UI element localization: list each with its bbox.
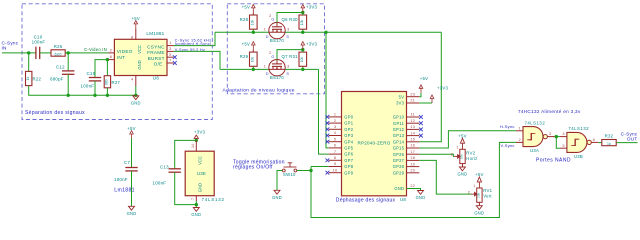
transistor Q7 BS170 [269,59,285,75]
svg-text:GP1: GP1 [344,121,353,126]
wire R32 to C-Sync OUT [616,142,637,144]
power +5V at R28 [252,5,256,13]
wire to U3B pin5 [556,137,560,149]
svg-text:VCC: VCC [137,45,142,54]
svg-text:74LS132: 74LS132 [525,120,546,125]
svg-text:GND: GND [416,195,426,200]
wire C7 to gnd [131,171,133,206]
svg-text:7: 7 [191,198,195,200]
ground at U3E [193,208,199,212]
svg-text:10k: 10k [300,57,304,63]
svg-text:GP27: GP27 [393,158,405,163]
svg-text:5V: 5V [399,94,405,99]
pin 7 [195,196,197,201]
pin 3 FRAME [167,50,174,52]
wire pin7 [195,201,197,205]
wire R30 bottom [302,29,304,32]
svg-text:1: 1 [264,26,266,31]
svg-text:INT: INT [117,55,125,60]
wire U3A out to U3B pin4 [555,136,560,138]
svg-text:2: 2 [468,190,470,194]
wire loop to U3A pin2 [311,142,516,217]
svg-text:GND: GND [394,186,404,191]
wire +5V to C7 [131,139,133,168]
svg-text:20: 20 [410,169,415,173]
power +3V3 at U3E [194,135,198,140]
svg-text:GP2: GP2 [344,127,353,132]
svg-text:3V3: 3V3 [396,101,405,106]
svg-text:GP6: GP6 [344,152,353,157]
svg-text:7: 7 [334,150,336,154]
power +5V at RV1 [477,177,481,188]
capacitor C10 [36,47,40,59]
svg-text:8: 8 [334,156,336,160]
wire C10 to R26 [40,52,51,54]
svg-text:7: 7 [169,58,171,63]
svg-text:+5V: +5V [242,42,251,47]
svg-text:680: 680 [105,79,109,85]
wire U8 gnd [407,189,421,191]
pin 10 GP9 [329,172,342,174]
svg-text:10k: 10k [251,57,255,63]
junction input/R22 [27,51,30,54]
no-connect GP11 [419,121,423,125]
svg-text:U3B: U3B [574,154,583,159]
wire R29 bottom [252,66,254,69]
wire C15 to U6 pin6 [95,60,109,78]
svg-text:R28: R28 [240,17,249,22]
capacitor C15 [89,78,101,81]
svg-text:3: 3 [334,125,336,129]
wire C-Sync to GP14 column [326,31,441,33]
pin 1 GP0 [329,116,342,118]
svg-text:2: 2 [451,153,453,157]
svg-text:1: 1 [169,40,171,45]
svg-text:GP14: GP14 [393,139,405,144]
svg-text:10k: 10k [477,192,481,197]
svg-text:2: 2 [519,138,521,142]
svg-text:18: 18 [410,156,415,160]
svg-text:10k: 10k [300,20,304,26]
wire row Q6 left [215,31,269,33]
svg-text:1k: 1k [26,76,30,80]
dashed frame: Separation des signaux [22,4,212,120]
pin 17 GP26 [407,153,420,155]
pin 12 GP11 [407,122,420,124]
resistor R29 [250,52,258,66]
svg-text:GP10: GP10 [393,115,405,120]
svg-text:10: 10 [333,168,338,172]
svg-text:+5V: +5V [127,126,136,131]
junction C13/pin7/gnd [195,203,198,206]
pin 4 GND [135,76,137,87]
svg-text:100nF: 100nF [153,181,167,186]
no-connect pin 5 [173,55,177,59]
svg-text:1k: 1k [607,142,611,146]
svg-text:OUT: OUT [627,136,638,141]
wire input to R22 [28,53,30,72]
svg-text:22: 22 [410,184,415,188]
gate U3B 74LS132 NAND [567,132,587,152]
svg-text:3: 3 [549,132,551,136]
junction gate/R30 [301,11,304,14]
pin 8 VCC [135,29,137,41]
pin 20 GP29 [407,172,420,174]
svg-text:C15: C15 [87,71,96,76]
svg-text:RV1: RV1 [483,188,492,193]
svg-text:74LS132: 74LS132 [202,197,225,202]
svg-text:R22: R22 [33,77,42,82]
capacitor C13 [169,169,181,172]
svg-text:R31: R31 [289,54,298,59]
svg-text:C-Video IN: C-Video IN [84,47,107,52]
svg-text:1: 1 [473,184,475,188]
wire R26 to U6 pin2 [65,52,108,54]
svg-text:GND: GND [191,212,201,217]
svg-text:GP26: GP26 [393,152,405,157]
svg-text:D: D [266,35,269,39]
pin 2 GP1 [329,122,342,124]
pin 6 GP5 [329,147,342,149]
svg-text:8: 8 [131,35,133,40]
svg-text:Horiz: Horiz [466,156,477,161]
wire R31 top [302,50,304,53]
wire R30 top [302,13,304,16]
wire R27 to rail [106,88,108,96]
resistor R30 [299,15,307,29]
svg-text:U3E: U3E [197,171,206,176]
svg-text:GP3: GP3 [344,133,353,138]
no-connect GP3 [326,134,330,138]
IC U8 RP2040-ZERO body [342,92,407,196]
pin 11 GP10 [407,116,420,118]
svg-text:+3V3: +3V3 [437,85,449,90]
svg-text:Séparation des signaux: Séparation des signaux [25,110,85,116]
wire row Q7 left [220,68,269,70]
svg-text:GP13: GP13 [393,133,405,138]
pin 6 [108,59,114,61]
svg-text:680pF: 680pF [50,77,64,82]
pin 1 CSYNC [167,45,174,47]
svg-text:réglages On/Off: réglages On/Off [233,165,273,171]
pin 2 VIDEO IN [108,52,114,54]
wire Q6 gate [277,13,303,23]
no-connect GP13 [419,134,423,138]
svg-text:RP2040-ZERO: RP2040-ZERO [357,140,390,145]
svg-text:R29: R29 [240,54,249,59]
pin 5 GP4 [329,141,342,143]
svg-text:U3A: U3A [530,148,539,153]
svg-text:GP11: GP11 [393,121,405,126]
svg-text:13: 13 [410,125,415,129]
svg-text:G: G [271,18,274,22]
svg-text:+5V: +5V [475,172,484,177]
wire to gnd U3E [195,205,197,208]
svg-text:Portes NAND: Portes NAND [536,157,571,163]
svg-text:6: 6 [334,144,336,148]
svg-text:D: D [266,72,269,76]
wire GP15 H-Sync to U3A pin1 [419,131,516,148]
dashed frame: Adaptation de niveau logique [227,4,324,94]
svg-text:GND: GND [127,211,137,216]
svg-text:14: 14 [191,144,195,148]
wire row Q6 right [285,31,326,33]
ground at C7 [129,206,135,210]
svg-text:+5V: +5V [458,134,467,139]
svg-text:GP4: GP4 [344,139,353,144]
svg-text:GND: GND [457,172,467,177]
junction [106,94,109,97]
junction [93,94,96,97]
svg-text:1: 1 [519,126,521,130]
svg-text:4: 4 [563,132,565,136]
svg-text:6: 6 [110,54,112,59]
svg-text:GP15: GP15 [393,146,405,151]
svg-text:R32: R32 [605,134,614,139]
wire to C12 [67,53,69,71]
wire to GP8 pin9 [311,166,329,168]
svg-text:O/E: O/E [154,62,163,67]
wire SW10 to gnd [277,171,282,191]
junction R31/row [301,68,304,71]
power +5V at U6 [134,21,138,29]
junction [134,94,137,97]
wire C13 to U3E gnd [175,172,197,204]
no-connect GP2 [326,127,330,131]
svg-text:12: 12 [410,119,415,123]
pin 19 GP28 [407,166,420,168]
wire pin6 line to R27 [106,60,108,76]
svg-text:1: 1 [456,145,458,149]
pin 16 GP15 [407,147,420,149]
svg-text:S: S [286,35,289,39]
svg-text:Vert: Vert [483,194,492,199]
svg-text:11: 11 [411,113,415,117]
svg-text:2: 2 [110,47,112,52]
no-connect GP0 [326,115,330,119]
capacitor C12 [62,71,74,74]
svg-text:3: 3 [169,46,171,51]
power +3V3 at R31 [301,42,305,50]
svg-text:S: S [286,72,289,76]
svg-text:IN: IN [2,46,7,51]
svg-text:+3V3: +3V3 [306,42,318,47]
junction R29/row [252,68,255,71]
svg-text:BS170: BS170 [270,38,285,43]
no-connect GP1 [326,121,330,125]
svg-text:5: 5 [563,144,565,148]
svg-text:H-Sync: H-Sync [500,124,515,129]
svg-text:LM1881: LM1881 [146,31,164,36]
svg-text:R30: R30 [289,17,298,22]
pin 22 GND [407,188,420,190]
no-connect GP9 [326,171,330,175]
wire GP26 to RV2 [419,154,454,156]
svg-text:FRAME: FRAME [147,50,165,55]
junction R30/row [301,31,304,34]
no-connect GP10 [419,115,423,119]
wire U3B out to R32 [598,142,601,144]
svg-text:10k: 10k [251,20,255,26]
svg-text:21: 21 [410,99,415,103]
svg-text:23: 23 [410,92,415,96]
pin 14 GP13 [407,135,420,137]
svg-text:C12: C12 [56,64,65,69]
power +5V at R29 [252,42,256,50]
junction C-Sync branch [324,31,327,34]
junction R28/row [252,31,255,34]
potentiometer RV2 RV2 Horiz [460,149,465,163]
no-connect GP4 [326,140,330,144]
no-connect GP7 [326,158,330,162]
svg-text:74LS132: 74LS132 [568,126,589,131]
resistor R28 [250,15,258,29]
wire U6 gnd [135,86,137,95]
wire SW10 right [297,170,311,172]
svg-text:1: 1 [334,113,336,117]
svg-text:R26: R26 [54,44,63,49]
transistor Q6 BS170 [269,22,285,38]
pin 21 3V3 [407,102,420,104]
svg-text:RV2: RV2 [466,150,475,155]
pin 7 GP6 [329,153,342,155]
resistor R22 [26,71,32,85]
svg-text:GP28: GP28 [393,164,405,169]
wire row Q7 right [285,68,318,70]
svg-text:Q6: Q6 [282,17,289,22]
resistor R31 [299,52,307,66]
svg-text:+3V3: +3V3 [194,130,206,135]
resistor R32 [602,140,616,146]
svg-text:V-Sync: V-Sync [501,143,515,148]
power +5V at RV2 [460,138,464,149]
wire C12 to rail [67,74,69,95]
pin 23 5V [407,96,420,98]
wire GP27 to RV1 [419,160,471,194]
power +5V at C7 [130,131,134,139]
wire C-Sync to level shifter [174,32,215,45]
junction SW10/loop [309,169,312,172]
svg-text:5: 5 [334,137,336,141]
svg-text:5: 5 [169,52,171,57]
svg-text:GND: GND [131,100,141,105]
wire V-Sync to level shifter [174,51,220,69]
wire C15 to rail [94,81,96,95]
pin 4 GP3 [329,135,342,137]
potentiometer RV1 RV1 Vert [477,188,482,202]
svg-text:BS170: BS170 [270,75,285,80]
wire Q7 gate [277,50,303,60]
svg-text:3: 3 [287,63,289,68]
svg-text:+5V: +5V [242,5,251,10]
svg-text:74HC132 Alimenté en 3,3v: 74HC132 Alimenté en 3,3v [518,109,581,114]
power +3V3 at U8 [430,95,434,103]
svg-text:GP29: GP29 [393,170,405,175]
svg-text:C13: C13 [160,164,169,169]
svg-text:C7: C7 [124,160,130,165]
wire C-Sync to GP14 [419,32,441,142]
svg-text:BURST: BURST [148,56,165,61]
svg-text:4: 4 [334,131,336,135]
junction C13/+3V3/pin14 [195,139,198,142]
svg-text:GND: GND [137,60,142,69]
wire 5V pin to +5V [419,93,421,97]
svg-text:+5V: +5V [132,16,141,21]
pin 13 GP12 [407,128,420,130]
svg-text:GP0: GP0 [344,115,353,120]
resistor R26 [51,50,65,56]
svg-text:100nF: 100nF [32,39,46,44]
ground at U8 [418,191,424,195]
switch SW10 [282,163,296,172]
ground at RV2 [459,167,465,171]
svg-text:17: 17 [410,150,415,154]
power +5V at U8 [419,85,423,93]
svg-text:GP9: GP9 [344,170,353,175]
resistor R27 [104,76,110,88]
wire R31 bottom [302,66,304,69]
svg-text:GP8: GP8 [344,164,353,169]
power +3V3 at R30 [301,5,305,13]
svg-text:G: G [271,55,274,59]
wire C-Sync IN to C10 [2,52,36,54]
capacitor C7 [125,168,137,171]
junction R26/C12 [67,51,70,54]
ground at SW10 [274,190,280,194]
svg-text:1: 1 [264,63,266,68]
wire R28 bottom [252,29,254,32]
pin 14 [195,140,197,151]
svg-text:SW10: SW10 [283,172,296,177]
svg-text:100nF: 100nF [81,83,95,88]
svg-text:VCC: VCC [198,156,203,165]
junction [67,94,70,97]
pin 3 GP2 [329,128,342,130]
svg-text:Q7: Q7 [282,54,289,59]
junction gate/R31 [301,48,304,51]
junction U3A out [555,135,558,138]
svg-text:3: 3 [287,26,289,31]
no-connect pin 7 [173,61,177,65]
wire C13 to U3E vcc [175,140,197,168]
svg-text:GND: GND [198,183,203,192]
ground at U6 [133,96,139,100]
IC U3E 74LS132 power body [185,151,214,196]
wire 3V3 pin [419,102,432,104]
svg-text:CSYNC: CSYNC [147,44,165,49]
pin 5 BURST [167,56,174,58]
svg-text:+3V3: +3V3 [306,5,318,10]
svg-text:19: 19 [410,162,415,166]
svg-text:6: 6 [593,138,595,142]
svg-text:GP5: GP5 [344,146,353,151]
pin 7 O/E [167,62,174,64]
svg-text:15: 15 [410,138,415,142]
svg-text:Adaptation de niveau logique: Adaptation de niveau logique [223,87,295,93]
pin 18 GP27 [407,159,420,161]
svg-text:2: 2 [334,119,336,123]
wire C-Sync to GP5 [326,32,329,148]
svg-text:9: 9 [334,162,336,166]
no-connect GP12 [419,128,423,132]
svg-text:620: 620 [54,51,62,56]
svg-text:R27: R27 [112,80,121,85]
svg-text:U8: U8 [400,197,406,202]
svg-text:VIDEO: VIDEO [117,49,133,54]
pin 8 GP7 [329,159,342,161]
svg-text:GND: GND [474,210,484,215]
svg-text:16: 16 [410,144,415,148]
